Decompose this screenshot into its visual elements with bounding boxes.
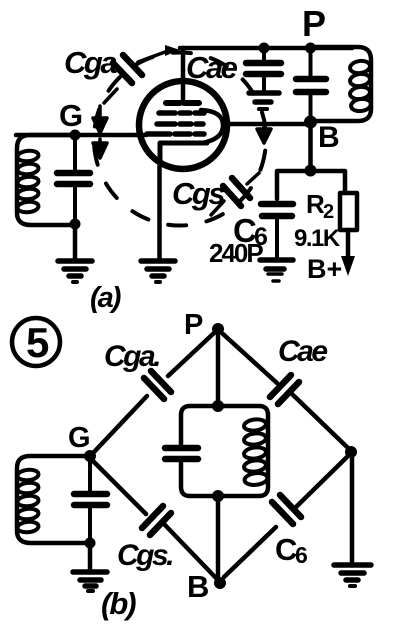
ground (grid tank)	[58, 261, 92, 282]
capacitor Cgs (b) tilted plates	[142, 506, 171, 535]
wire: Cga to G (b)	[94, 396, 147, 452]
wire: top plate bus	[180, 46, 352, 51]
ground (Cae)	[249, 93, 279, 109]
svg-text:Cgs.: Cgs.	[117, 539, 172, 572]
wire: branch to C6	[277, 171, 311, 199]
node B (b)	[214, 577, 226, 589]
coil L2 loops	[349, 60, 371, 113]
capacitor Cgs (tilted symbol)	[211, 173, 259, 215]
svg-text:P: P	[184, 309, 203, 341]
capacitor Cae column	[246, 48, 281, 90]
node: tank bottom (b)	[212, 490, 224, 502]
wire: Cgs to B (b)	[165, 525, 216, 578]
node: B branch junction	[305, 165, 317, 177]
triode U1 envelope	[139, 81, 227, 169]
wire: R2 to B+ with arrow	[346, 230, 351, 257]
ground (C6)	[260, 260, 293, 281]
coil tank loops (b)	[243, 418, 268, 486]
svg-text:G: G	[68, 422, 91, 454]
wire: B down to branch node	[308, 122, 313, 170]
svg-text:P: P	[302, 3, 326, 44]
wire: B to C6 (b)	[224, 527, 276, 577]
svg-text:6: 6	[295, 542, 308, 568]
capacitor C6 (b) tilted plates	[272, 495, 301, 524]
node P	[305, 43, 316, 54]
svg-text:5: 5	[26, 319, 49, 366]
triode U1 plate lead	[181, 48, 186, 101]
capacitor Cae (b) tilted plates	[270, 375, 299, 404]
wire: G tank to ground (b)	[88, 543, 93, 570]
triode grid row 4	[147, 131, 204, 137]
coil L1 loops	[17, 150, 39, 214]
svg-text:B+: B+	[307, 254, 342, 284]
arrowhead of Cga pointing at plate lead	[165, 45, 180, 56]
ground (right, b)	[334, 565, 371, 586]
figure number 5 circled	[12, 318, 60, 366]
wire: G tank (b)	[17, 456, 90, 543]
svg-text:Cga: Cga	[64, 45, 117, 80]
capacitor C6	[261, 204, 293, 257]
svg-text:(b): (b)	[101, 586, 136, 621]
capacitor G tank (b)	[74, 456, 107, 543]
node: tank top (b)	[212, 400, 224, 412]
node: G tank bottom (b)	[85, 538, 96, 549]
node G	[70, 130, 81, 141]
wire: cathode to ground	[157, 166, 162, 259]
arrow annotation at grid wire (above)	[93, 106, 107, 133]
svg-text:Cae: Cae	[186, 50, 238, 85]
wire: P to Cae (b)	[223, 334, 277, 383]
node P (b)	[212, 323, 224, 335]
wire: Cae to right node (b)	[292, 394, 348, 448]
svg-text:B: B	[318, 121, 340, 154]
wire: P to Cga (b)	[168, 333, 214, 376]
dashed circle: tube interelectrode boundary	[94, 52, 266, 225]
wire: grid lead G	[16, 133, 146, 138]
wire: tank bottom to ground	[73, 224, 78, 259]
svg-text:G: G	[59, 98, 83, 133]
svg-text:Cga.: Cga.	[104, 340, 159, 373]
triode grid row 3	[157, 121, 203, 127]
ground (G tank, b)	[73, 572, 107, 591]
triode plate electrode (row 1 bar)	[166, 100, 199, 106]
ground (cathode)	[141, 261, 175, 282]
wire: branch to R2	[311, 171, 346, 193]
coil G tank loops (b)	[17, 469, 39, 534]
coil L2 plate tank wire	[310, 47, 371, 121]
wire: C6 to right node (b)	[295, 457, 347, 508]
capacitor: plate blocking (P to B column)	[296, 48, 326, 122]
wire: tank bottom to B (b)	[216, 496, 221, 583]
capacitor C1 grid tank	[57, 135, 90, 224]
svg-text:9.1K: 9.1K	[294, 225, 341, 252]
resistor R2	[340, 193, 357, 230]
triode grid row 2	[159, 110, 204, 116]
wire: right node to ground (b)	[350, 452, 355, 562]
node G (b)	[84, 450, 96, 462]
node: grid tank bottom	[70, 219, 81, 230]
triode internal bracket (right electrode connection)	[201, 110, 223, 143]
svg-text:B: B	[187, 569, 209, 604]
capacitor Cga (b) tilted plates	[144, 371, 171, 399]
tank box (b)	[181, 406, 268, 496]
svg-text:240P: 240P	[209, 238, 263, 268]
node B	[304, 116, 317, 129]
wire: plate row to node B	[223, 122, 311, 127]
svg-text:(a): (a)	[90, 282, 121, 314]
triode cathode	[160, 143, 207, 166]
node: Cae junction on plate bus	[259, 43, 270, 54]
coil L1 grid tank wire	[17, 135, 75, 225]
svg-text:2: 2	[323, 201, 334, 223]
node right (b)	[345, 446, 357, 458]
svg-text:Cae: Cae	[278, 335, 327, 368]
capacitor tank (b)	[165, 448, 198, 459]
capacitor Cga (tilted symbol)	[104, 52, 165, 103]
arrow annotation at grid wire (below)	[93, 139, 107, 158]
wire: P down to tank top (b)	[216, 329, 221, 406]
arrow annotation below B wire	[257, 126, 271, 143]
wire: G to Cgs (b)	[93, 461, 146, 514]
